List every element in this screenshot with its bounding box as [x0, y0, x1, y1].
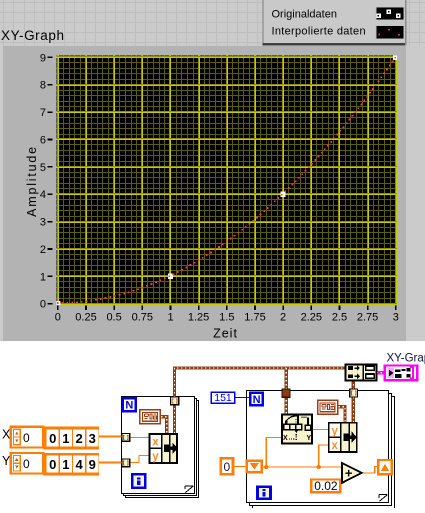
svg-text:4: 4 [40, 189, 46, 201]
right loop page curl [379, 494, 388, 501]
0 initializer constant [221, 458, 233, 474]
wire: tunnel to bundle x input (left loop) [130, 437, 149, 439]
maroon cluster tunnel on right loop border [282, 389, 290, 397]
svg-text:0: 0 [40, 299, 46, 311]
plot major grid [57, 56, 398, 306]
svg-text:1.75: 1.75 [244, 311, 265, 323]
svg-text:2: 2 [40, 244, 46, 256]
svg-text:Originaldaten: Originaldaten [272, 9, 337, 21]
svg-text:4: 4 [75, 457, 83, 472]
svg-text:1: 1 [40, 271, 46, 283]
front panel background [0, 0, 425, 341]
svg-text:+: + [345, 466, 353, 481]
svg-text:0: 0 [23, 431, 30, 445]
svg-text:0: 0 [224, 460, 231, 474]
svg-text:X: X [283, 435, 288, 442]
svg-text:2.5: 2.5 [332, 311, 347, 323]
svg-text:0.02: 0.02 [314, 479, 338, 493]
svg-text:2: 2 [75, 431, 82, 446]
svg-text:1.25: 1.25 [188, 311, 209, 323]
svg-text:N: N [125, 400, 133, 412]
svg-text:0.25: 0.25 [75, 311, 96, 323]
svg-text:x: x [152, 437, 159, 449]
svg-text:1: 1 [62, 457, 69, 472]
svg-text:151: 151 [214, 392, 232, 404]
legend sample Interpolierte daten (red dots) [376, 26, 405, 40]
svg-text:1: 1 [62, 431, 69, 446]
svg-text:Amplitude: Amplitude [25, 145, 39, 217]
bundle node (left loop) [150, 434, 178, 463]
wire: interpolate Y output to bundle y input [313, 428, 328, 430]
wire: Y array to left loop tunnel [99, 461, 122, 463]
Build Array node [346, 365, 377, 381]
svg-text:1: 1 [167, 311, 173, 323]
svg-text:8: 8 [40, 80, 46, 92]
svg-text:Y: Y [307, 435, 312, 442]
svg-text:0: 0 [49, 431, 56, 446]
N terminal (right loop) [250, 393, 262, 406]
svg-text:N: N [253, 394, 261, 406]
svg-text:Interpolierte daten: Interpolierte daten [272, 25, 366, 37]
svg-text:2.75: 2.75 [357, 311, 378, 323]
wire: X array to left loop tunnel [99, 435, 122, 437]
svg-text:1.5: 1.5 [219, 311, 234, 323]
cluster wire: right loop output tunnel up to Build Array [352, 381, 355, 390]
wire: tunnel to bundle y input (left loop) [130, 456, 149, 463]
right for-loop (stacked frame) [247, 391, 395, 509]
legend sample Originaldaten (white square markers) [376, 7, 405, 20]
magenta cluster-array wire to XY-Graph terminal [377, 371, 386, 375]
wire junction [264, 465, 268, 469]
block diagram background [0, 341, 425, 508]
svg-text:2.25: 2.25 [301, 311, 322, 323]
svg-text:X: X [2, 428, 11, 442]
wire: 0 constant to shift register [233, 466, 247, 468]
X array index display [11, 427, 43, 448]
svg-text:0.5: 0.5 [106, 311, 121, 323]
loop tunnel [] left of left loop (Y) [122, 459, 130, 467]
wire: riser to interpolate X input [266, 438, 281, 468]
plot area [57, 56, 398, 306]
cluster wire: tunnel down to bundle node in right loop [352, 397, 355, 423]
bundle node (right loop) [329, 423, 357, 452]
legend panel [263, 0, 407, 45]
plot minor grid [57, 56, 398, 306]
cluster-type icon (left loop) [140, 410, 160, 424]
graph widget body [3, 46, 406, 341]
shift register left (down arrow) [247, 461, 262, 473]
cluster-type icon (right loop) [318, 400, 338, 414]
N terminal (left loop) [123, 398, 136, 412]
svg-text:9: 9 [89, 457, 96, 472]
Y array elements 0 1 4 9 [44, 453, 99, 476]
svg-text:3: 3 [393, 311, 399, 323]
X array elements 0 1 2 3 [44, 427, 99, 450]
svg-text:x: x [331, 440, 338, 452]
wire: riser to bundle x input (right loop) [319, 445, 329, 467]
wire junction [317, 465, 321, 469]
svg-text:XY-Grap: XY-Grap [387, 353, 425, 365]
svg-text:3: 3 [40, 217, 46, 229]
axis ticks and tick labels [40, 52, 399, 323]
cluster wire: cluster-type icon to bundle node (left loop) [161, 417, 167, 434]
svg-text:9: 9 [40, 52, 46, 64]
0.02 increment constant [311, 479, 340, 493]
svg-text:Zeit: Zeit [213, 327, 238, 341]
wire: 151 constant to N terminal [235, 397, 250, 399]
svg-text:5: 5 [40, 162, 46, 174]
interpolated data dots (red) [57, 57, 396, 304]
svg-text:y: y [331, 425, 338, 437]
svg-text:Y: Y [2, 454, 11, 468]
loop tunnel [] left of left loop (X) [122, 434, 130, 442]
left loop page curl [185, 485, 194, 492]
wire: add node to right shift register [362, 467, 379, 473]
original data markers (white squares) [55, 55, 398, 307]
Y array index display [11, 453, 43, 474]
Interpolate 1D Array node [282, 415, 312, 444]
cluster wire: cluster-type icon to bundle node (right loop) [338, 407, 345, 423]
svg-text:7: 7 [40, 107, 46, 119]
svg-text:0: 0 [23, 457, 30, 471]
svg-text:0.75: 0.75 [132, 311, 153, 323]
panel alignment grid [0, 0, 425, 46]
wire: shift register across right loop [262, 466, 342, 468]
svg-text:0: 0 [49, 457, 56, 472]
cluster wire: left loop tunnel up and across to Build Array [175, 368, 346, 434]
loop tunnel [] top of right loop (output) [350, 389, 358, 397]
XY-Graph terminal [385, 366, 417, 381]
svg-text:6: 6 [40, 135, 46, 147]
cluster wire: branch down into right loop tunnel [285, 368, 288, 414]
iteration terminal i (left loop) [132, 474, 145, 487]
loop tunnel [] top of left loop [171, 397, 179, 405]
add node [342, 463, 362, 483]
svg-text:2: 2 [280, 311, 286, 323]
left for-loop (stacked frame) [122, 397, 199, 498]
svg-text:XY-Graph: XY-Graph [1, 28, 65, 43]
151 count constant [211, 392, 234, 404]
svg-text:0: 0 [55, 311, 61, 323]
iteration terminal i (right loop) [258, 487, 271, 499]
svg-text:3: 3 [89, 431, 96, 446]
shift register right (up arrow) [378, 460, 392, 474]
svg-text:y: y [152, 451, 159, 463]
